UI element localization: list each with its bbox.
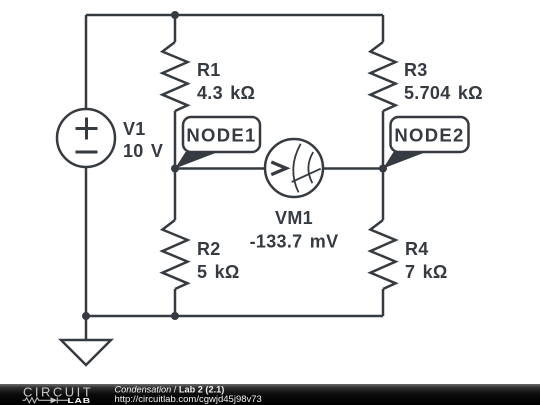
svg-text:-133.7 mV: -133.7 mV: [250, 232, 339, 252]
svg-text:LAB: LAB: [68, 396, 91, 404]
svg-text:R4: R4: [405, 239, 429, 259]
svg-text:R2: R2: [197, 239, 221, 259]
svg-text:4.3 kΩ: 4.3 kΩ: [197, 83, 255, 103]
svg-text:NODE1: NODE1: [186, 125, 256, 146]
svg-text:R3: R3: [404, 60, 428, 80]
svg-text:10 V: 10 V: [123, 141, 163, 161]
svg-text:NODE2: NODE2: [394, 125, 464, 146]
svg-text:VM1: VM1: [275, 208, 313, 228]
svg-text:V1: V1: [123, 119, 146, 139]
svg-text:5 kΩ: 5 kΩ: [197, 262, 240, 282]
svg-text:http://circuitlab.com/cgwjd45j: http://circuitlab.com/cgwjd45j98v73: [115, 394, 262, 405]
svg-text:7 kΩ: 7 kΩ: [405, 262, 448, 282]
svg-text:R1: R1: [197, 60, 221, 80]
svg-text:5.704 kΩ: 5.704 kΩ: [404, 83, 483, 103]
